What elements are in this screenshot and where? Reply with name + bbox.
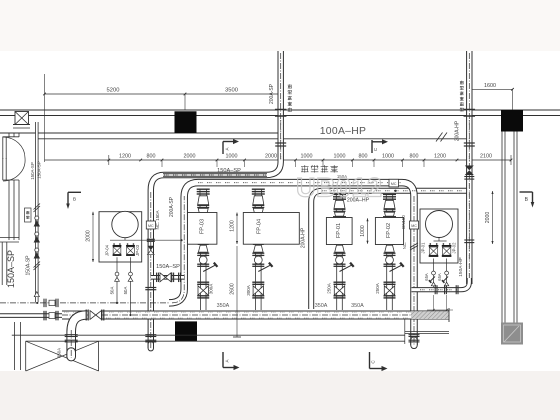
svg-text:200A-SP: 200A-SP xyxy=(169,196,175,217)
label riser cn strokes xyxy=(460,80,464,82)
wall lower line xyxy=(0,132,283,134)
flange pipe1 below cross xyxy=(145,287,156,289)
svg-text:NC. 150A: NC. 150A xyxy=(155,210,160,229)
pump FP-01 discharge stack xyxy=(335,194,337,217)
flanges on underground main xyxy=(43,299,45,308)
pump FP-01 suction assembly xyxy=(336,244,338,310)
svg-text:65A: 65A xyxy=(424,273,429,281)
svg-text:2000: 2000 xyxy=(86,230,92,242)
flange riser SP xyxy=(275,142,286,144)
drawing sheet area xyxy=(0,51,560,371)
door jamb top xyxy=(3,136,20,138)
svg-text:1000: 1000 xyxy=(334,153,346,159)
flanges on exit pipes xyxy=(43,311,45,321)
left lower wall lines xyxy=(14,322,16,370)
jockey drops 65A xyxy=(433,259,435,288)
jockey pump JP-03 xyxy=(126,245,135,247)
section mark C bottom xyxy=(369,352,371,369)
room label fire pump room (cn strokes) xyxy=(301,165,309,167)
svg-text:5200: 5200 xyxy=(107,88,120,94)
svg-text:800: 800 xyxy=(410,153,419,159)
section mark A bottom xyxy=(222,352,224,368)
svg-text:350A: 350A xyxy=(57,348,62,358)
tank outlet line xyxy=(124,238,126,241)
svg-text:150A-SP: 150A-SP xyxy=(25,255,31,276)
svg-text:DN150: DN150 xyxy=(401,215,406,229)
svg-text:65A: 65A xyxy=(437,273,442,281)
svg-text:UB012: UB012 xyxy=(296,173,383,203)
svg-text:150A–SP: 150A–SP xyxy=(156,264,180,270)
texture pipe A xyxy=(164,174,266,176)
steel column symbol top left xyxy=(15,112,29,125)
left wall jamb lines xyxy=(8,133,10,137)
tank circle left xyxy=(112,211,138,237)
svg-text:150A–SP: 150A–SP xyxy=(6,250,16,288)
texture pipe B xyxy=(198,182,402,184)
column (black) top mid xyxy=(175,111,197,133)
jockey plant box right xyxy=(420,209,458,263)
flanges jockey suction pipe xyxy=(434,285,436,294)
tank circle right xyxy=(426,211,453,238)
line to run B xyxy=(110,239,182,241)
svg-text:2000: 2000 xyxy=(485,212,491,224)
watermark logo xyxy=(296,173,383,203)
jockey plant box left xyxy=(99,212,142,262)
door leaf lower xyxy=(2,158,4,180)
dimension extension stubs xyxy=(161,160,163,167)
svg-text:JP-02: JP-02 xyxy=(452,242,457,254)
svg-text:FP-04: FP-04 xyxy=(257,219,263,234)
check valve 1 xyxy=(34,220,40,227)
pipe A 150A-SP with riser xyxy=(151,51,281,348)
svg-text:1000: 1000 xyxy=(360,225,366,237)
jockey 50A line 2 xyxy=(130,257,132,315)
wall top outer line xyxy=(0,109,560,111)
pipe run B 200A-SP header xyxy=(169,183,414,345)
underground main (dash-dot) xyxy=(0,302,170,304)
svg-text:300A: 300A xyxy=(208,284,213,295)
valve on main xyxy=(89,310,102,320)
svg-text:800: 800 xyxy=(147,153,156,159)
floor step lines right xyxy=(405,331,449,333)
svg-text:1200: 1200 xyxy=(434,153,446,159)
cross connection pipe xyxy=(151,275,184,280)
svg-text:1200: 1200 xyxy=(230,220,236,232)
svg-text:NC.: NC. xyxy=(402,242,407,249)
section mark B right xyxy=(520,191,533,193)
svg-text:B: B xyxy=(73,197,76,203)
left riser 150A-SP xyxy=(35,122,38,302)
svg-text:MC: MC xyxy=(411,224,417,228)
section mark B left xyxy=(68,191,81,193)
bottom band xyxy=(0,371,560,420)
sleeve riser SP at wall xyxy=(275,109,287,111)
svg-text:1600: 1600 xyxy=(484,83,496,89)
svg-text:50A: 50A xyxy=(109,287,114,295)
svg-text:JP-01: JP-01 xyxy=(421,242,426,254)
fittings 50A lines xyxy=(115,272,119,276)
svg-text:150A-SP: 150A-SP xyxy=(30,162,35,180)
sleeve riser HP at wall xyxy=(464,109,476,111)
dim 1000 pumps 1/2 xyxy=(367,218,369,244)
column (black) top right xyxy=(501,110,523,132)
flow arrow xyxy=(34,292,39,297)
svg-text:1000: 1000 xyxy=(226,153,238,159)
valve on cross pipe xyxy=(160,273,166,282)
pump FP-03 suction assembly xyxy=(199,244,201,310)
svg-text:150A-SP: 150A-SP xyxy=(36,161,41,179)
svg-text:JP-04: JP-04 xyxy=(105,244,110,256)
svg-text:MC: MC xyxy=(148,224,154,228)
svg-text:300A: 300A xyxy=(246,285,251,296)
door swing arcs xyxy=(3,137,25,158)
svg-text:250A: 250A xyxy=(327,283,332,294)
svg-text:2100: 2100 xyxy=(480,153,492,159)
jockey pump JP-01 xyxy=(429,245,439,247)
pump FP-04 discharge stack xyxy=(254,189,256,214)
svg-text:350A: 350A xyxy=(217,303,230,309)
jockey 50A line 1 xyxy=(116,257,118,303)
dim 2600 vertical xyxy=(236,246,238,337)
svg-text:200A-SP: 200A-SP xyxy=(269,83,275,104)
small dim under jockeys xyxy=(433,295,435,310)
pump FP-03 discharge stack xyxy=(199,189,201,214)
svg-text:200A-HP: 200A-HP xyxy=(454,120,460,141)
valve (black) on riser HP xyxy=(465,166,474,171)
pump FP-01 xyxy=(326,218,352,245)
pump FP-02 discharge stack xyxy=(385,194,387,217)
dimension 1600 xyxy=(469,88,512,90)
suction exit pipe left xyxy=(0,313,63,318)
label rooftop tank (cn strokes) xyxy=(288,84,292,86)
svg-text:800: 800 xyxy=(359,153,368,159)
right wall vertical lines xyxy=(501,132,503,323)
tank suction drop pipe xyxy=(71,315,87,357)
pipe A thin mid section xyxy=(163,173,267,176)
pump FP-02 suction assembly xyxy=(386,244,388,310)
door jamb bottom xyxy=(3,179,20,181)
tank outlet right xyxy=(438,238,440,242)
texture pipe C xyxy=(322,190,466,192)
riser 150A-HP xyxy=(466,51,472,284)
pipe 100A-HP horizontal line xyxy=(38,138,467,140)
svg-text:200A-HP: 200A-HP xyxy=(300,227,306,248)
junction dot riser HP xyxy=(468,138,470,140)
dim 1200 pumps 3/4 xyxy=(236,213,238,245)
svg-text:1000: 1000 xyxy=(301,153,313,159)
check valve 3 xyxy=(34,252,40,259)
dimension row (1200 800 2000 1000 2000 1000 1000 800 1000 800 1200 2100) xyxy=(45,159,512,161)
svg-text:2000: 2000 xyxy=(265,153,277,159)
sump pit box with cross xyxy=(25,341,27,371)
svg-text:100A–HP: 100A–HP xyxy=(320,126,367,137)
column (black) bottom mid xyxy=(175,321,197,341)
pipe run C 200A-HP header xyxy=(311,191,468,309)
svg-text:350A: 350A xyxy=(315,303,328,309)
MC box on pipe 1 xyxy=(146,221,155,229)
svg-text:350A: 350A xyxy=(351,303,364,309)
dim 2000 left xyxy=(92,212,94,262)
pump FP-02 xyxy=(375,218,403,245)
column (grey) bottom right xyxy=(501,323,523,345)
label box on left riser xyxy=(25,208,32,222)
pump FP-04 suction assembly xyxy=(255,244,257,310)
svg-text:150A-HP: 150A-HP xyxy=(458,257,464,276)
flange riser HP xyxy=(464,142,475,144)
wall top inner line xyxy=(0,115,560,117)
dim 2000 right xyxy=(492,191,494,244)
dimension 5200 xyxy=(45,93,186,95)
MC box on pipe B xyxy=(389,179,399,187)
door leaf upper xyxy=(2,137,4,159)
svg-text:250A: 250A xyxy=(375,283,380,294)
svg-text:1000: 1000 xyxy=(382,153,394,159)
jockey pump JP-04 xyxy=(113,245,122,247)
valve on pipe 1 xyxy=(147,238,155,240)
floor line 1 xyxy=(12,334,405,336)
jockey pump JP-02 xyxy=(442,245,452,247)
svg-text:150A–SP: 150A–SP xyxy=(217,168,241,174)
floor sleeves on drop pipes xyxy=(65,334,78,336)
junction dots xyxy=(36,302,38,304)
svg-text:2600: 2600 xyxy=(230,283,236,295)
junction dot run C xyxy=(394,190,396,192)
svg-text:FP-03: FP-03 xyxy=(200,219,206,234)
flange riser HP lower xyxy=(464,239,474,241)
svg-text:MC: MC xyxy=(391,182,397,186)
junction dot riser SP xyxy=(280,138,282,140)
svg-text:50A: 50A xyxy=(123,287,128,295)
pump FP-03 xyxy=(188,213,217,245)
section mark C top xyxy=(372,141,382,143)
section mark A top xyxy=(223,141,233,143)
svg-text:1200: 1200 xyxy=(119,153,131,159)
svg-text:FP-02: FP-02 xyxy=(386,223,392,238)
svg-text:3500: 3500 xyxy=(225,88,238,94)
check valve 2 xyxy=(34,236,40,243)
floor line 2 xyxy=(26,340,405,342)
jockey suction pipe w/ elbow to riser xyxy=(412,278,470,290)
suction main 350A xyxy=(62,311,449,320)
left wall step xyxy=(0,237,19,239)
break on pipe 3 xyxy=(410,243,418,248)
svg-text:2000: 2000 xyxy=(184,153,196,159)
pump FP-04 xyxy=(243,213,299,245)
MC box on pipe 3 xyxy=(410,221,419,229)
break symbol on 100A-HP xyxy=(436,133,443,142)
svg-text:JP-03: JP-03 xyxy=(135,244,140,256)
svg-text:FP-01: FP-01 xyxy=(336,223,342,238)
break mark xyxy=(34,204,41,210)
break mark 2 xyxy=(34,262,41,268)
dimension 3500 xyxy=(185,93,279,95)
